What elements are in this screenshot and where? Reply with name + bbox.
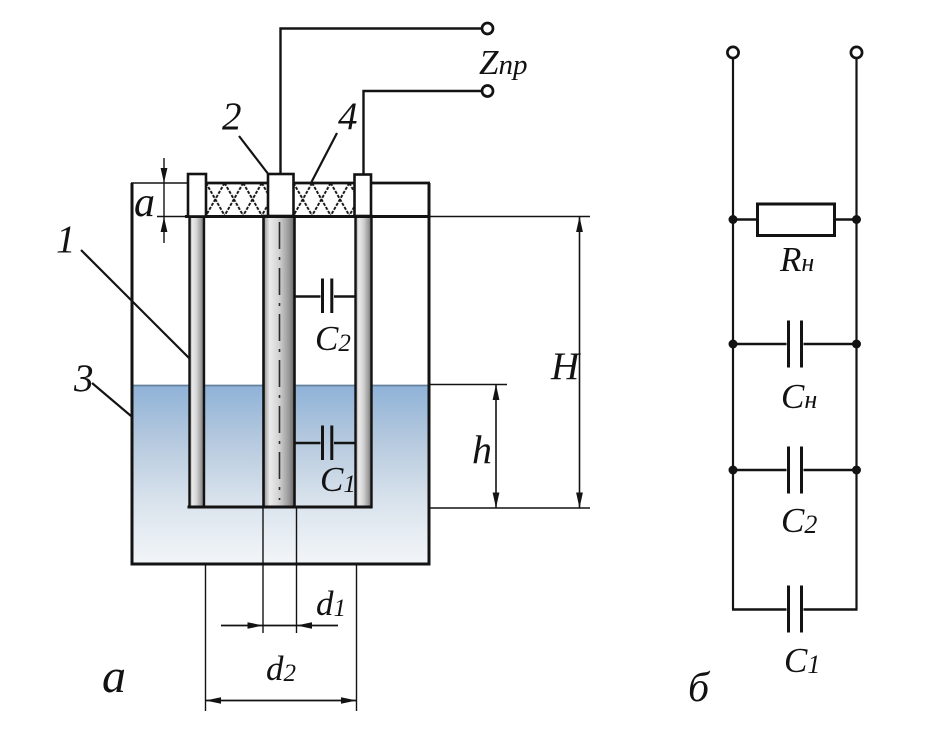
- a arrow down (tip at lid top): [161, 168, 168, 183]
- leader 3: [92, 383, 131, 416]
- a arrow up (tip at lid bottom): [161, 217, 168, 232]
- d2 extension lines: [205, 565, 207, 711]
- svg-text:C2: C2: [315, 319, 351, 358]
- resistor Rn body: [758, 204, 835, 236]
- svg-text:а: а: [102, 650, 126, 703]
- svg-text:C1: C1: [784, 641, 820, 680]
- junction dot left Rn: [729, 215, 738, 224]
- lid top line: [131, 182, 190, 184]
- capacitor Cn wires: [733, 343, 787, 345]
- hatched lid (insulator) right part: [294, 183, 356, 216]
- capacitor C2 plates: [787, 447, 790, 494]
- wire from center electrode to terminal: [281, 29, 483, 175]
- svg-text:б: б: [688, 665, 711, 711]
- svg-text:H: H: [550, 345, 581, 388]
- svg-text:Rн: Rн: [779, 240, 814, 279]
- electrode tube outer-left: [190, 216, 205, 507]
- right rail wire: [855, 59, 857, 610]
- liquid (3) fill inside tank: [133, 385, 428, 565]
- d1 dimension line with inward arrows: [221, 625, 338, 627]
- center axis dash-dot line: [279, 222, 281, 500]
- dimension a : vertical line + arrows: [163, 158, 165, 243]
- d1 extension lines: [262, 507, 264, 633]
- junction dot right C2: [852, 466, 861, 475]
- svg-text:C2: C2: [781, 501, 817, 540]
- left rail wire: [732, 59, 734, 610]
- electrode tube center (inner electrode): [264, 216, 295, 507]
- svg-text:Cн: Cн: [781, 377, 817, 416]
- leader 2: [239, 136, 269, 175]
- lid bottom line (thin extension 157..590): [157, 216, 590, 218]
- hatched lid (insulator) left part: [206, 183, 268, 216]
- terminal circle left: [727, 47, 738, 58]
- terminal circle top: [482, 23, 493, 34]
- svg-text:3: 3: [73, 357, 94, 400]
- terminal circle bottom: [482, 86, 493, 97]
- bushing center (2): [268, 174, 294, 216]
- capacitor C1 (liquid phase): [294, 442, 321, 445]
- svg-text:d1: d1: [316, 584, 346, 623]
- electrode tube outer-right: [356, 216, 372, 507]
- capacitor C2 wires: [733, 469, 787, 471]
- leader 4: [312, 133, 338, 182]
- terminal circle right: [851, 47, 862, 58]
- dimension H line: [579, 217, 581, 509]
- svg-text:a: a: [134, 180, 155, 226]
- svg-text:d2: d2: [266, 649, 296, 688]
- svg-text:4: 4: [338, 95, 358, 138]
- liquid surface extension line: [429, 384, 507, 386]
- capacitor C1 plates: [787, 586, 790, 633]
- junction dot left Cn: [729, 340, 738, 349]
- bushing right (4): [355, 175, 372, 217]
- capacitor C2 (gas phase): [294, 295, 321, 298]
- svg-text:h: h: [472, 427, 492, 472]
- liquid surface edge: [133, 385, 428, 387]
- junction dot left C2: [729, 466, 738, 475]
- tank outline: [132, 183, 429, 564]
- wire from right electrode to terminal: [364, 91, 483, 174]
- lid bottom line thick inside tank: [185, 215, 430, 218]
- leader 1: [81, 250, 189, 358]
- dimension h line: [495, 385, 497, 509]
- svg-text:Zпр: Zпр: [479, 43, 527, 82]
- svg-text:2: 2: [222, 95, 242, 138]
- resistor Rn row wire: [733, 218, 857, 220]
- junction dot right Cn: [852, 340, 861, 349]
- bushing left: [188, 174, 206, 217]
- tubes bottom edge line: [188, 506, 373, 509]
- svg-text:1: 1: [56, 218, 76, 261]
- d2 dimension line with outward arrows: [206, 700, 357, 702]
- capacitor C1 bottom wires: [732, 608, 787, 610]
- capacitor Cn plates: [787, 321, 790, 368]
- bottom extension line (H,h): [429, 507, 590, 509]
- junction dot right Rn: [852, 215, 861, 224]
